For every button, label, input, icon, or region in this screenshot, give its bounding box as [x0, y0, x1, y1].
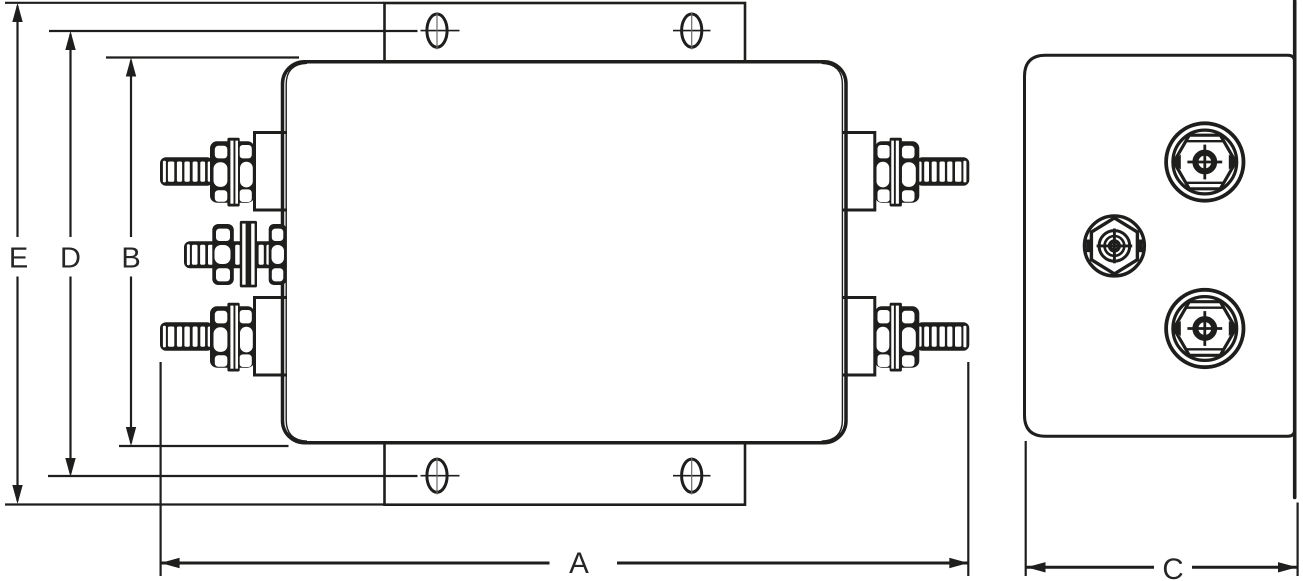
terminal stud bottom-left — [160, 303, 255, 372]
mounting slot top-left — [421, 12, 460, 49]
insulator block top-right — [842, 133, 875, 211]
extension line D top — [49, 30, 418, 32]
arrowhead A left — [161, 558, 180, 568]
bracket inner line — [286, 63, 307, 441]
extension line C right — [1296, 503, 1298, 577]
svg-text:B: B — [121, 243, 140, 275]
insulator block top-left — [255, 133, 288, 211]
mounting slot bottom-right — [673, 457, 711, 494]
arrowhead C right — [1278, 562, 1297, 572]
terminal stud top-right — [875, 138, 970, 207]
arrowhead B up — [126, 58, 136, 77]
top mounting flange — [385, 3, 746, 62]
arrowhead B down — [126, 427, 136, 446]
dimension line C — [1027, 566, 1298, 569]
extension line D bottom — [48, 475, 418, 477]
line terminal bottom end view — [1166, 290, 1243, 367]
line terminal top end view — [1166, 123, 1243, 200]
bottom mounting flange — [385, 443, 746, 505]
dimension line B — [130, 61, 132, 444]
arrowhead C left — [1027, 562, 1046, 572]
side view flange edge — [1293, 1, 1297, 498]
filter body outline — [283, 62, 847, 443]
svg-text:E: E — [9, 243, 28, 275]
svg-text:D: D — [60, 243, 81, 275]
arrowhead A right — [949, 558, 968, 568]
insulator block bottom-right — [842, 298, 875, 376]
ground stud — [184, 241, 284, 268]
svg-text:A: A — [569, 547, 589, 580]
extension line E top — [5, 2, 384, 4]
ground stud thread slots — [187, 244, 272, 265]
ground terminal middle-left — [184, 221, 286, 288]
extension line E bottom — [5, 503, 384, 505]
terminal stud bottom-right — [875, 303, 970, 372]
arrowhead D down — [65, 458, 75, 477]
extension line A right — [967, 362, 969, 576]
ground terminal end view — [1084, 216, 1144, 276]
extension line A left — [160, 362, 162, 576]
extension line B top — [106, 56, 299, 58]
ground washers — [240, 221, 257, 288]
insulator block bottom-left — [255, 298, 288, 376]
bracket inner line right — [822, 63, 843, 441]
arrowhead D up — [65, 31, 75, 50]
terminal stud top-left — [160, 138, 255, 207]
dimension line A — [161, 562, 968, 565]
arrowhead E down — [12, 485, 22, 504]
ground hex nut inner — [269, 224, 287, 285]
dimension line E — [16, 6, 18, 501]
mounting slot bottom-left — [421, 457, 460, 494]
mounting slot top-right — [673, 12, 711, 49]
svg-text:C: C — [1162, 553, 1183, 581]
extension line B bottom — [119, 445, 289, 447]
dimension line D — [69, 34, 71, 473]
ground hex nut outer — [212, 224, 234, 285]
side view body — [1025, 55, 1295, 436]
arrowhead E up — [12, 3, 22, 22]
extension line C left — [1025, 441, 1027, 576]
